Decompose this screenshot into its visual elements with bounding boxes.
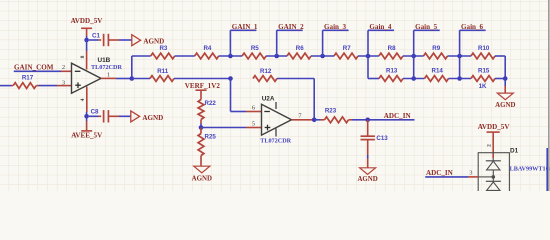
- resistor R6: [287, 45, 311, 59]
- node VREF divider: [199, 125, 204, 130]
- svg-text:R12: R12: [260, 68, 272, 75]
- wire row1: [266, 55, 287, 57]
- wire row1: [403, 55, 424, 57]
- wire Gain_6 rail: [459, 56, 461, 79]
- resistor R9: [424, 45, 448, 59]
- wire R15 to ladder end: [495, 78, 505, 80]
- svg-text:R7: R7: [343, 45, 351, 52]
- svg-text:4: 4: [80, 98, 86, 101]
- wire C8 to AGND: [119, 115, 131, 117]
- pin 7 output wire: [292, 119, 315, 121]
- svg-text:Gain_4: Gain_4: [369, 23, 392, 31]
- resistor R10: [471, 45, 495, 59]
- node ladder ground: [503, 76, 508, 81]
- resistor R8: [379, 45, 403, 59]
- node C13 tap: [365, 118, 370, 123]
- pin 1 output wire: [101, 77, 132, 79]
- net label Gain_4 stub: [368, 23, 394, 56]
- resistor R17: [12, 74, 39, 88]
- wire row2 start: [132, 78, 150, 80]
- svg-text:AGND: AGND: [192, 176, 212, 183]
- wire junction to C1: [89, 39, 99, 41]
- svg-text:AVDD_5V: AVDD_5V: [478, 123, 511, 131]
- node GAIN_2 junction: [274, 54, 279, 59]
- svg-text:VERF_1V2: VERF_1V2: [185, 82, 221, 90]
- svg-text:6: 6: [252, 104, 255, 111]
- op-amp U1B: [72, 57, 123, 93]
- resistor R13: [379, 68, 403, 82]
- window edge line: [548, 0, 550, 191]
- power AGND (C13): [357, 140, 377, 183]
- net label GAIN_1 stub: [230, 23, 257, 56]
- capacitor C8: [91, 108, 119, 122]
- resistor R7: [334, 45, 358, 59]
- svg-text:TL072CDR: TL072CDR: [260, 137, 291, 144]
- svg-text:ADC_IN: ADC_IN: [426, 169, 454, 177]
- wire node to pin 6: [231, 79, 262, 112]
- wire row1: [358, 55, 379, 57]
- svg-text:1K: 1K: [479, 83, 487, 90]
- svg-text:AGND: AGND: [357, 176, 377, 183]
- wire row1: [175, 55, 195, 57]
- wire row1: [495, 55, 505, 57]
- svg-text:AGND: AGND: [495, 102, 515, 109]
- net label Gain_6 stub: [460, 23, 486, 56]
- wire left edge to R17: [0, 85, 12, 87]
- wire output up to row 1: [131, 56, 133, 79]
- svg-text:R23: R23: [325, 107, 337, 114]
- svg-text:R6: R6: [296, 45, 304, 52]
- wire node to pin 5: [201, 127, 262, 129]
- resistor R22: [198, 100, 216, 120]
- node U2A output: [312, 118, 317, 123]
- svg-text:R17: R17: [22, 74, 34, 81]
- diode D1 LBAV99WT1G: [478, 148, 550, 198]
- wire R11 to node: [174, 78, 231, 80]
- svg-text:C1: C1: [92, 33, 100, 40]
- svg-text:R9: R9: [432, 45, 440, 52]
- node row2 Gain_5 rail: [411, 76, 416, 81]
- svg-text:GAIN_2: GAIN_2: [278, 23, 304, 31]
- svg-text:R13: R13: [386, 68, 398, 75]
- wire R12 right to feedback corner: [253, 79, 314, 120]
- resistor R14: [425, 68, 449, 82]
- node Gain_6 junction: [457, 54, 462, 59]
- svg-text:R14: R14: [432, 68, 444, 75]
- power AGND (C8): [131, 111, 163, 122]
- svg-text:2: 2: [487, 144, 493, 147]
- svg-text:R11: R11: [157, 68, 169, 75]
- svg-text:R3: R3: [159, 45, 167, 52]
- wire ladder end corner: [504, 56, 506, 79]
- wire Gain_5 rail: [413, 56, 415, 79]
- svg-text:8: 8: [80, 55, 86, 58]
- net label Gain_5 stub: [414, 23, 440, 56]
- svg-text:GAIN_1: GAIN_1: [232, 23, 258, 31]
- power VERF_1V2: [185, 82, 221, 100]
- svg-text:5: 5: [252, 120, 255, 127]
- resistor R12: [253, 68, 277, 82]
- svg-text:LBAV99WT1G: LBAV99WT1G: [510, 166, 550, 173]
- net label Gain_3 stub: [323, 23, 349, 56]
- node Gain_4 junction: [366, 54, 371, 59]
- svg-text:R15: R15: [478, 68, 490, 75]
- resistor R23: [321, 107, 353, 122]
- wire row1: [448, 55, 472, 57]
- capacitor C13: [361, 120, 389, 142]
- resistor R4: [195, 45, 219, 59]
- svg-text:D1: D1: [510, 148, 519, 155]
- pin 4 wire to AVEE: [86, 87, 88, 117]
- wire R13-R14: [403, 78, 425, 80]
- resistor R11: [150, 68, 174, 82]
- svg-text:AVEE_5V: AVEE_5V: [71, 132, 103, 140]
- svg-text:1: 1: [107, 72, 110, 79]
- node AVEE junction at C8: [84, 114, 89, 119]
- svg-text:AGND: AGND: [142, 114, 163, 122]
- wire row1: [311, 55, 334, 57]
- svg-text:Gain_6: Gain_6: [461, 23, 484, 31]
- svg-text:U2A: U2A: [262, 96, 275, 103]
- svg-text:R22: R22: [205, 100, 217, 107]
- wire junction to C8: [89, 115, 99, 117]
- wire rail to R13: [368, 78, 379, 80]
- node U1B output: [130, 76, 135, 81]
- node GAIN_1 junction: [228, 54, 233, 59]
- power AVEE_5V: [71, 116, 103, 139]
- svg-text:3: 3: [62, 79, 65, 86]
- svg-text:3: 3: [469, 169, 472, 176]
- resistor R5: [242, 45, 266, 59]
- svg-text:C8: C8: [91, 108, 99, 115]
- svg-text:C13: C13: [376, 135, 388, 142]
- wire R23 to ADC_IN stub: [352, 119, 415, 121]
- power AGND (R25): [192, 156, 212, 183]
- wire pin8 supply: [86, 40, 88, 70]
- svg-text:AVDD_5V: AVDD_5V: [71, 17, 104, 25]
- power AGND (C1): [132, 35, 164, 46]
- resistor R15 1K: [471, 68, 495, 91]
- wire row1: [219, 55, 242, 57]
- node Gain_5 junction: [411, 54, 416, 59]
- svg-text:TL072CDR: TL072CDR: [91, 64, 122, 71]
- svg-text:R8: R8: [388, 45, 396, 52]
- svg-text:U1B: U1B: [98, 57, 111, 64]
- node row2 Gain_6 rail: [457, 76, 462, 81]
- svg-text:Gain_5: Gain_5: [415, 23, 438, 31]
- power AVDD_5V (D1): [478, 123, 511, 158]
- capacitor C1: [92, 33, 119, 47]
- svg-text:R25: R25: [205, 133, 217, 140]
- node inverting input U2A: [228, 76, 233, 81]
- node Gain_3 junction: [320, 54, 325, 59]
- wire R17 to pin 3: [39, 85, 72, 87]
- svg-text:R5: R5: [251, 45, 259, 52]
- svg-text:2: 2: [62, 64, 65, 71]
- net label GAIN_2 stub: [277, 23, 304, 56]
- resistor R3: [151, 45, 175, 59]
- svg-text:ADC_IN: ADC_IN: [384, 112, 412, 120]
- power AGND (ladder): [495, 79, 515, 109]
- wire R14-R15: [449, 78, 472, 80]
- wire C1 to AGND: [119, 39, 132, 41]
- svg-text:GAIN_COM: GAIN_COM: [14, 63, 54, 71]
- svg-text:Gain_3: Gain_3: [324, 23, 347, 31]
- op-amp U2A: [260, 96, 291, 145]
- wire row1 start: [132, 55, 151, 57]
- power AVDD_5V (U1B supply): [71, 17, 104, 40]
- resistor R25: [198, 128, 216, 156]
- pin 3 wire ADC_IN to D1: [425, 176, 478, 178]
- node AVDD junction at C1: [84, 38, 89, 43]
- svg-text:R10: R10: [478, 45, 490, 52]
- svg-text:R4: R4: [203, 45, 211, 52]
- wire R22 to node: [200, 120, 202, 128]
- wire output to R23: [314, 119, 320, 121]
- wire right edge: [546, 148, 548, 191]
- wire GAIN_COM to pin 2: [14, 70, 72, 72]
- wire Gain_4 rail down: [367, 56, 369, 79]
